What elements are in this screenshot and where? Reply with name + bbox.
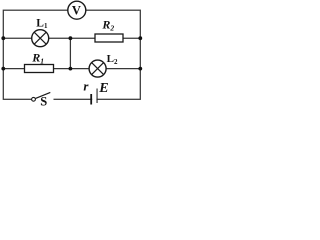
svg-text:R2: R2 <box>101 17 114 32</box>
svg-text:E: E <box>98 81 108 96</box>
wire outer loop border <box>3 10 140 99</box>
resistor R1 <box>25 50 54 72</box>
lamp L1 <box>32 18 49 47</box>
svg-text:S: S <box>40 94 47 106</box>
battery cell E r <box>83 78 108 104</box>
junction node mid-row2 <box>69 36 73 40</box>
svg-text:L2: L2 <box>107 53 118 66</box>
svg-text:V: V <box>72 3 81 17</box>
junction node mid-row3 <box>69 67 73 71</box>
junction node left-row2 <box>1 36 5 40</box>
svg-text:R1: R1 <box>31 50 44 65</box>
junction node right-row2 <box>138 36 142 40</box>
junction node right-row3 <box>138 67 142 71</box>
wire row 3 horizontal <box>3 68 140 70</box>
wire middle vertical <box>69 38 71 68</box>
resistor R2 <box>95 17 123 42</box>
lamp L2 <box>89 53 118 77</box>
wire row 2 horizontal <box>3 37 140 39</box>
wire gap for battery <box>92 97 96 102</box>
svg-text:L1: L1 <box>36 18 48 31</box>
switch S <box>32 92 51 108</box>
svg-text:r: r <box>83 78 89 93</box>
junction node left-row3 <box>1 67 5 71</box>
voltmeter V <box>68 1 86 19</box>
wire gap for switch <box>35 97 54 101</box>
